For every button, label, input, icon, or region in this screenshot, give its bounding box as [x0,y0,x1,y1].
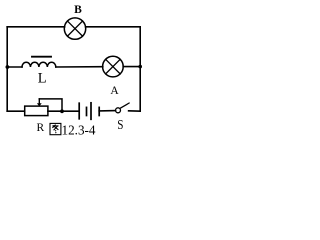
switch S circle [116,108,121,113]
battery long plate 2 [90,103,92,120]
svg-text:B: B [74,4,82,16]
wire left vertical [6,27,8,111]
wire switch to corner [129,110,141,112]
battery short plate 2 [98,107,100,115]
lamp A [103,56,124,77]
svg-text:A: A [110,85,119,97]
node junction left [6,65,10,69]
battery long plate 1 [78,103,80,119]
wire rheostat to battery [48,110,79,112]
battery short plate 1 [86,107,88,115]
wire middle branch left [7,66,22,68]
wire right vertical [139,27,141,111]
wire middle branch right [123,66,140,68]
wire bottom rail left [7,110,24,112]
wire top rail right [86,26,141,28]
switch S lever [121,103,130,108]
lamp B [64,18,85,39]
rheostat wiper arrow stem [38,99,40,104]
rheostat tap wire [39,99,62,111]
node junction right [138,65,142,69]
wire top rail left [7,26,64,28]
inductor core bar [32,56,51,58]
svg-text:12.3-4: 12.3-4 [62,123,96,138]
wire battery to switch [99,110,115,112]
svg-text:L: L [38,70,47,86]
rheostat arrowhead [37,103,42,106]
node junction rheostat tap [60,109,64,113]
svg-text:S: S [117,118,123,133]
wire middle branch mid [56,66,103,68]
svg-text:R: R [36,122,44,134]
caption hanzi tu glyph [50,123,61,134]
inductor L coil [22,62,56,67]
rheostat R box [25,106,48,116]
